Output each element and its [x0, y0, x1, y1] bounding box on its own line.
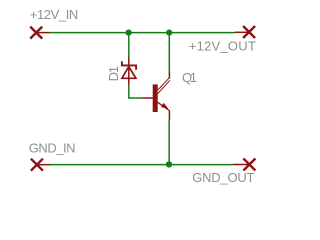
transistor Q1 base bar: [153, 84, 158, 112]
wire junction to D1 cathode: [128, 33, 130, 57]
zener diode D1: [122, 57, 136, 86]
pin lead +12V_IN: [36, 32, 49, 34]
port pin X mark +12V_IN: [30, 27, 42, 39]
svg-text:+12V_OUT: +12V_OUT: [189, 38, 256, 53]
port pin X mark +12V_OUT: [243, 26, 255, 38]
pin lead +12V_OUT: [235, 31, 249, 33]
svg-text:GND_OUT: GND_OUT: [192, 170, 254, 185]
wire emitter to GND junction: [168, 120, 170, 165]
svg-text:+12V_IN: +12V_IN: [30, 7, 79, 22]
wire collector to junction: [168, 33, 170, 71]
svg-text:D1: D1: [106, 66, 121, 82]
port pin X mark GND_IN: [31, 159, 43, 171]
svg-text:GND_IN: GND_IN: [29, 141, 76, 156]
pin lead GND_OUT: [233, 164, 249, 166]
svg-text:Q1: Q1: [182, 70, 197, 85]
base pin lead Q1: [142, 97, 152, 99]
wire +12V top rail: [50, 32, 236, 34]
junction node GND rail: [166, 161, 172, 167]
wire D1 anode to Q1 base: [129, 86, 143, 98]
transistor Q1 emitter with arrow: [158, 102, 170, 110]
pin lead GND_IN: [37, 164, 50, 166]
wire GND rail: [50, 164, 234, 166]
junction node at Q1 collector: [166, 29, 172, 35]
junction node at D1 top: [126, 29, 132, 35]
transistor Q1 collector (double line): [158, 78, 170, 94]
collector pin lead Q1: [168, 71, 170, 79]
emitter pin lead Q1: [168, 111, 170, 120]
port pin X mark GND_OUT: [243, 159, 255, 171]
